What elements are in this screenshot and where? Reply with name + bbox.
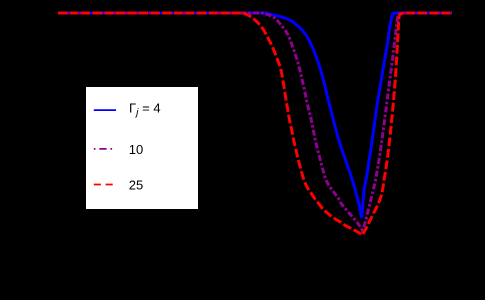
legend box <box>86 87 198 209</box>
transmission curve Gamma_j=10 (purple dash-dot) <box>58 13 452 230</box>
transmission curve Gamma_j=25 (red dashed) <box>58 13 452 235</box>
legend line 25 <box>94 184 116 186</box>
svg-text:25: 25 <box>129 177 143 192</box>
legend line 10 <box>94 148 113 150</box>
legend line Gamma_j=4 <box>94 109 116 111</box>
svg-text:10: 10 <box>129 142 143 157</box>
transmission curve Gamma_j=4 (blue solid) <box>58 13 452 218</box>
